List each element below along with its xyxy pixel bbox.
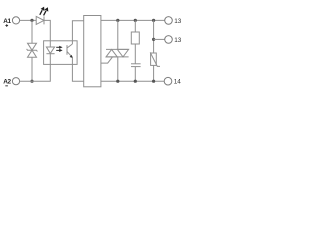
driver block U2 <box>84 16 101 87</box>
node varistor top <box>152 19 155 22</box>
wire varistor column upper <box>153 20 155 53</box>
terminal 13 upper <box>165 17 173 25</box>
terminal 14 <box>164 77 172 85</box>
wire bottom output bus <box>101 80 164 82</box>
optocoupler LED <box>49 41 51 47</box>
resistor R1 <box>134 20 136 32</box>
triac V1 <box>117 20 119 49</box>
LED D1 indicator <box>36 16 44 24</box>
capacitor C1 <box>131 63 141 65</box>
label - <box>5 84 8 87</box>
optocoupler light arrows <box>56 46 62 52</box>
svg-text:14: 14 <box>174 79 182 86</box>
terminal A2 <box>12 78 19 85</box>
node TVS-A2 junction <box>30 80 33 83</box>
terminal 13 lower <box>165 36 173 44</box>
node 13 tap <box>152 38 155 41</box>
svg-text:13: 13 <box>174 18 182 25</box>
node triac bottom <box>116 80 119 83</box>
node varistor bottom <box>152 80 155 83</box>
node triac top <box>116 19 119 22</box>
label + <box>5 24 8 27</box>
optocoupler U1 box <box>44 41 78 65</box>
terminal A1 <box>12 17 19 24</box>
wire top output bus <box>101 19 165 21</box>
svg-text:13: 13 <box>174 37 182 44</box>
wire A2 input return bus <box>20 64 51 81</box>
wire collector up and to driver box <box>72 21 83 44</box>
svg-text:A1: A1 <box>3 18 11 25</box>
varistor RU <box>151 53 157 65</box>
node input junction <box>30 19 33 22</box>
suppressor diode TVS <box>31 20 33 43</box>
triac gate wire <box>101 57 112 63</box>
phototransistor Q1 <box>66 45 68 55</box>
LED D1 emission arrows <box>40 7 49 16</box>
node capacitor bottom <box>134 80 137 83</box>
wire emitter down and to driver box <box>72 57 83 81</box>
wire to lower 13 <box>154 38 165 40</box>
node resistor top <box>134 19 137 22</box>
svg-text:A2: A2 <box>3 79 11 86</box>
wire LED to corner, down into optocoupler <box>44 20 50 40</box>
wire A1 to node <box>20 19 37 21</box>
